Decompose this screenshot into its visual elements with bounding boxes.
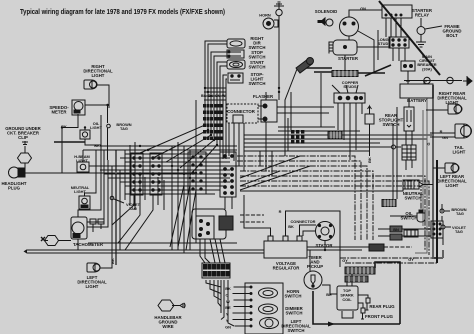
violet tag (right): [441, 225, 451, 229]
wire mid h bundle 5: [244, 142, 380, 144]
wire battery left down: [408, 98, 410, 107]
svg-text:BK: BK: [61, 124, 67, 129]
svg-text:HORN: HORN: [259, 13, 271, 18]
wire long horizontal 1: [88, 242, 237, 244]
wire left dir light bk up: [111, 253, 113, 268]
wire timer down loop: [313, 291, 400, 324]
coil ribbed connector bars: [345, 267, 375, 282]
wire starter cable left: [300, 68, 332, 72]
start switch box: [227, 60, 245, 69]
wire flasher left verticals: [285, 92, 291, 156]
wire mesh h4: [120, 157, 230, 159]
copper studs terminal block: [332, 85, 365, 103]
wire coil to front plug: [358, 303, 363, 308]
handlebar ground wire symbol: [158, 300, 185, 311]
wire flasher studs links: [277, 107, 334, 113]
svg-text:GY: GY: [408, 257, 414, 262]
svg-text:STARTSWITCH: STARTSWITCH: [249, 60, 266, 70]
wire coil bottom u: [342, 311, 353, 318]
wire mesh h2: [83, 149, 237, 151]
wire right col gray c: [422, 110, 424, 226]
wire bundle b2: [204, 91, 226, 93]
left mesh connector small box B: [150, 153, 162, 195]
svg-text:BATTERY: BATTERY: [407, 98, 427, 103]
svg-text:SPEEDO-METER: SPEEDO-METER: [49, 105, 69, 115]
wire ign right verticals: [393, 107, 397, 199]
wire mesh h13: [125, 193, 215, 195]
svg-text:G: G: [426, 142, 431, 145]
junction dots trunk: [61, 87, 326, 251]
wire mid h bundle 4: [244, 138, 427, 140]
wire left col c: [87, 150, 104, 222]
voltage regulator: [264, 236, 307, 258]
wire right col thick b: [436, 160, 438, 263]
high-beam light: [77, 162, 89, 172]
tachometer: [71, 217, 87, 239]
wire speedometer right: [85, 105, 108, 123]
wire trunk 4: [180, 56, 227, 168]
wire mesh v1: [124, 150, 126, 200]
battery: [400, 81, 433, 98]
wire reg terminal 3: [300, 225, 317, 236]
wire bundle slants: [240, 156, 310, 190]
wire right dir light down: [97, 85, 109, 108]
wire mid h bundle 1: [278, 126, 335, 128]
wire relay pins down: [386, 18, 401, 37]
right directional light (front): [84, 80, 97, 89]
wire ground clip thick: [54, 141, 85, 143]
svg-text:REAR PLUG: REAR PLUG: [369, 304, 395, 309]
mid ribbed connector bar: [328, 132, 342, 139]
svg-text:BK: BK: [367, 157, 372, 163]
violet tag (left): [110, 196, 124, 203]
brown tag (right): [440, 209, 450, 213]
stop-light switch box: [228, 73, 243, 83]
wire mesh h3: [125, 153, 220, 155]
wire solenoid starter: [348, 36, 350, 40]
wire coil loop right: [375, 262, 400, 324]
oil light: [80, 130, 90, 139]
wire hbeam top: [82, 150, 84, 162]
wire timer to coil: [322, 285, 337, 294]
stop switch box: [227, 50, 244, 58]
front spark plug: [361, 308, 365, 319]
wire big diagonal: [379, 1, 440, 75]
rear spark plug: [366, 298, 371, 310]
wire right rear dir light feed: [426, 109, 448, 111]
wire dash 6: [240, 181, 429, 255]
wire gy dash 1: [340, 257, 437, 259]
svg-text:GN: GN: [442, 135, 448, 140]
wire mesh v4: [139, 175, 141, 210]
svg-text:GY: GY: [342, 258, 348, 263]
ribbed connector mid right: [382, 200, 396, 207]
main circuit breaker: [401, 61, 415, 71]
ground under ckt breaker clip symbol: [18, 141, 32, 163]
wire speedometer bk down: [62, 114, 78, 173]
wire left col d: [87, 160, 108, 227]
wire violet tag run: [100, 166, 112, 268]
wire solenoid top: [349, 10, 382, 17]
flasher: [261, 100, 277, 122]
svg-text:R: R: [440, 129, 443, 134]
solenoid: [318, 17, 359, 36]
stator: [316, 222, 335, 241]
svg-text:HORNSWITCH: HORNSWITCH: [285, 289, 302, 299]
ign terminal box: [365, 106, 374, 124]
wire coil top: [347, 274, 352, 286]
wire stator bottom: [324, 241, 326, 251]
tail light: [455, 124, 472, 138]
wire starter cable diag: [365, 65, 391, 76]
wire dash 5: [240, 176, 425, 250]
wire mesh v9: [177, 142, 179, 250]
trunk connector pin bands: [203, 104, 224, 140]
wire mid h bundle 2: [278, 130, 360, 132]
wire stud col 4: [355, 103, 357, 150]
horn: [263, 18, 278, 29]
wire connector box drops: [229, 123, 244, 171]
wire flasher top: [265, 92, 267, 100]
wire trunk 6: [220, 66, 227, 159]
relay pin connector block: [389, 37, 409, 48]
wire ign box down: [369, 124, 371, 156]
wire headlight horizontal: [24, 172, 196, 174]
wire mesh h1: [100, 145, 237, 147]
svg-text:STARTER: STARTER: [338, 56, 359, 61]
wire bundle b3: [204, 95, 226, 97]
wire starter cable right: [358, 72, 385, 74]
wire starter down: [344, 55, 346, 70]
wire mesh v12: [195, 100, 197, 243]
svg-text:COPPERSTUDS: COPPERSTUDS: [342, 80, 359, 89]
wire mesh h10: [120, 181, 230, 183]
wire oil light down: [85, 139, 101, 145]
wire stud col 3: [349, 103, 351, 160]
speedometer: [72, 100, 85, 115]
svg-text:GN: GN: [360, 6, 366, 11]
wire stator to timer link: [309, 250, 311, 271]
svg-text:DIMMERSWITCH: DIMMERSWITCH: [285, 306, 303, 316]
wire reg terminal 2 r: [286, 211, 341, 267]
wire trunk 7: [223, 75, 227, 159]
rear stoplight switch: [402, 107, 416, 160]
wire mesh h7: [100, 169, 230, 171]
wire mesh h8: [104, 173, 230, 175]
svg-text:Typical wiring diagram for lat: Typical wiring diagram for late 1978 and…: [20, 9, 225, 16]
neutral switch symbol: [403, 180, 423, 189]
wire flasher drop: [258, 106, 266, 139]
wire dash 3: [237, 166, 367, 240]
headlight plug: [9, 167, 26, 178]
wire coil to rear plug: [358, 295, 368, 298]
wire bolt up: [420, 18, 422, 27]
wire mesh v3: [134, 142, 136, 210]
wire terminal O: [392, 145, 396, 149]
wire oil light feed: [84, 128, 86, 131]
wire mesh diag b: [170, 185, 184, 247]
wire mid h bundle 3: [244, 134, 433, 136]
wire reg terminal 1: [244, 195, 271, 236]
wire ign connector drop: [225, 197, 232, 209]
wire flasher drop into bundle: [260, 139, 272, 176]
wire ground clip to plug: [24, 148, 26, 168]
wire mid h bundle 6: [244, 146, 401, 148]
wire kick diag: [285, 69, 321, 127]
wire long horizontal 2: [27, 250, 264, 253]
wire tail light feed2: [430, 136, 455, 138]
copper studs ribbed cable: [332, 71, 358, 77]
wire solenoid long stud: [358, 30, 378, 73]
wire trunk 8: [226, 79, 227, 159]
frame ground bolt: [416, 26, 442, 47]
svg-text:LONGSTUD: LONGSTUD: [377, 37, 388, 46]
wire hbeam right: [89, 165, 104, 167]
wire reg dashes: [240, 215, 264, 222]
wire stud col 1: [337, 103, 339, 130]
wire mesh h5: [125, 161, 230, 163]
wire mid h bundle 7: [244, 150, 370, 152]
main harness connector: [220, 152, 236, 197]
svg-text:BK: BK: [94, 143, 100, 148]
svg-text:BK: BK: [288, 224, 294, 229]
wire brown tag right stem: [441, 204, 443, 221]
wire mesh diag a: [178, 185, 190, 247]
wire battery right down: [415, 98, 427, 253]
wire dash 7: [240, 186, 421, 213]
wire tach hexagon link: [44, 240, 71, 242]
right connector grid: [431, 221, 443, 238]
wire mesh v10: [183, 146, 185, 253]
wire grid fan down: [206, 280, 234, 326]
wire mesh v2: [129, 145, 131, 205]
top spark coil: [337, 286, 358, 310]
oil switch symbol: [417, 210, 425, 222]
starter motor: [329, 40, 357, 55]
wire horn down: [278, 16, 280, 100]
wire trunk 3: [166, 52, 227, 162]
trunk wire color labels: [201, 94, 226, 98]
svg-text:STATOR: STATOR: [316, 243, 334, 248]
handlebar connector grid: [202, 263, 230, 278]
wire stud col 2: [343, 103, 345, 140]
wire stator left: [303, 231, 316, 236]
junction dots handlebar: [250, 286, 253, 328]
wire stud col 5: [361, 103, 363, 114]
svg-text:NEUTRALSWITCH: NEUTRALSWITCH: [403, 191, 424, 201]
wire mesh v7: [163, 180, 165, 210]
wire tach bottom: [77, 239, 79, 250]
right rear directional light: [448, 104, 462, 114]
left mesh connector box C: [188, 152, 206, 194]
svg-text:SOLENOID: SOLENOID: [315, 9, 337, 14]
wire dash 8: [240, 186, 403, 191]
wire dash 1: [237, 156, 355, 240]
svg-text:FRONT PLUG: FRONT PLUG: [365, 314, 394, 319]
wire left col b: [78, 115, 101, 217]
tachometer hexagon connector: [41, 236, 59, 246]
wire trunk 1: [140, 41, 227, 153]
wire bn horizontals: [378, 229, 431, 236]
svg-text:BN: BN: [393, 227, 399, 232]
svg-text:H-BEAMLIGHT: H-BEAMLIGHT: [74, 154, 90, 163]
wire ign to grid fan: [200, 239, 225, 263]
wire mesh v6: [157, 177, 159, 205]
neutral light: [79, 196, 90, 209]
wire left rear dir light feed: [433, 167, 445, 169]
mid banded connector block: [291, 130, 304, 144]
ignition switch assembly: [192, 209, 233, 239]
wire violet tag right stem: [442, 229, 444, 245]
wire trunk 5: [190, 62, 227, 175]
dark component right of stator: [369, 244, 384, 251]
wire mesh h11: [125, 185, 225, 187]
brown tag (left): [107, 124, 111, 128]
wire mesh v8: [171, 146, 173, 250]
timer and pickup: [304, 271, 322, 289]
wire mesh h6: [100, 165, 237, 167]
wire oil switch link: [390, 215, 417, 217]
wire breaker battery: [407, 71, 409, 84]
horn ground symbol: [274, 2, 284, 16]
wire mesh box outlets: [112, 195, 153, 250]
svg-text:R: R: [279, 209, 282, 214]
wire bundle b1: [204, 87, 226, 89]
wire left col e: [119, 170, 121, 250]
wire bundle b4: [204, 99, 226, 101]
wire thick gray vertical: [115, 150, 117, 265]
svg-text:CONNECTOR: CONNECTOR: [290, 219, 315, 224]
wire right col thick a: [433, 85, 443, 258]
wire dark comp dash: [384, 246, 412, 248]
handlebar switch housing: [245, 283, 283, 334]
wire mesh v11: [189, 150, 191, 250]
wire gy dash 2: [345, 262, 437, 264]
wire mesh h9: [108, 177, 230, 179]
starter relay: [382, 5, 412, 22]
wire dash 4: [240, 171, 373, 240]
left rear directional light: [445, 163, 459, 173]
ground wire terminals top right: [424, 76, 472, 86]
wire tail light feed: [430, 132, 455, 134]
right dir switch box: [227, 39, 245, 48]
connector (upper, dashed outline): [227, 104, 258, 123]
svg-text:STOP-LIGHTSWITCH: STOP-LIGHTSWITCH: [249, 72, 266, 86]
left directional light (front): [87, 263, 100, 272]
svg-text:TACHOMETER: TACHOMETER: [73, 242, 104, 247]
wire dash 2: [237, 161, 361, 240]
svg-text:BE: BE: [326, 292, 332, 297]
wire neutral switch link: [423, 184, 433, 186]
kick lever symbol: [296, 58, 314, 74]
wire left col a: [85, 150, 97, 196]
wire brown tag vertical: [107, 128, 109, 160]
wire mesh v5: [144, 177, 146, 200]
wire mesh diag c: [186, 190, 196, 250]
wire stator top right: [307, 247, 369, 250]
tach connector bits: [90, 219, 104, 232]
wire starter right: [357, 37, 390, 47]
wire stoplight switch link: [406, 131, 412, 170]
left mesh connector small box A: [131, 153, 143, 195]
svg-text:BK: BK: [110, 258, 115, 264]
wire trunk 2: [153, 44, 227, 158]
svg-text:CONNECTOR: CONNECTOR: [227, 109, 256, 114]
wire mesh h12: [130, 189, 220, 191]
wire ground terminals: [404, 80, 462, 82]
wire relay block down: [393, 48, 405, 61]
wire labels to switch box: [233, 287, 252, 326]
svg-text:FLASHER: FLASHER: [253, 94, 274, 99]
rear harness ribbed connectors: [390, 226, 418, 240]
wire solenoid speaker link: [321, 22, 326, 24]
